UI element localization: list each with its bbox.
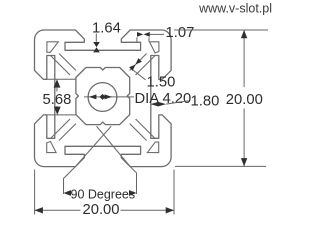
svg-text:1.64: 1.64 (92, 21, 121, 37)
dimension DIA 4.20 with arrows inside circle (84, 91, 191, 107)
dimension 20.00 bottom horizontal (35, 170, 174, 219)
svg-text:20.00: 20.00 (82, 202, 119, 218)
dimension 1.07 (137, 25, 194, 42)
corner triangle cutout bottom-left (47, 142, 56, 153)
corner triangle cutout top-right (150, 42, 159, 53)
corner triangle cutout top-left (47, 42, 58, 53)
web bottom-right pair (130, 119, 155, 141)
web top-right pair (130, 54, 155, 76)
svg-text:5.68: 5.68 (43, 92, 72, 108)
dimension 1.80 (150, 94, 219, 110)
dimension 90 Degrees angular (64, 167, 137, 202)
dimension 1.50 leader and bowtie on web (129, 58, 175, 90)
svg-text:1.50: 1.50 (147, 75, 176, 91)
dimension 5.68 left slot (43, 79, 76, 115)
svg-text:1.80: 1.80 (191, 94, 220, 110)
dimension 20.00 right vertical (174, 30, 268, 166)
central boss octagon with face notches (76, 68, 130, 125)
profile outer contour with four T-slot openings (35, 30, 172, 167)
svg-text:www.v-slot.pl: www.v-slot.pl (198, 2, 272, 16)
X lines below boss (75, 126, 130, 166)
svg-text:1.07: 1.07 (166, 25, 195, 41)
corner triangle cutout bottom-right (147, 142, 158, 153)
web bottom-left pair (51, 119, 76, 141)
svg-text:90 Degrees: 90 Degrees (71, 188, 136, 202)
center bore circle (88, 83, 117, 112)
svg-text:20.00: 20.00 (226, 92, 263, 108)
web top-left pair (51, 54, 76, 76)
dimension 1.64 (92, 21, 121, 53)
